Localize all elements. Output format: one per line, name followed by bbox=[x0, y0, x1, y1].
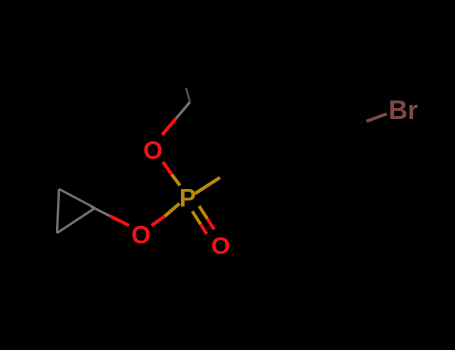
svg-text:O: O bbox=[143, 137, 162, 165]
double bond P=O line 1 red half bbox=[201, 224, 207, 234]
bond P-O2 red half bbox=[152, 216, 165, 225]
svg-text:O: O bbox=[211, 233, 230, 260]
bond Br-C4 bromine half bbox=[367, 114, 387, 121]
cyclopropyl edge lower (dim gray) bbox=[57, 208, 95, 233]
bond O1-CH3 red half bbox=[162, 119, 176, 136]
cyclopropyl edge upper (dim gray) bbox=[59, 189, 95, 208]
bond P-C1 phosphorus half bbox=[195, 178, 220, 194]
benzene ring (fogged, nearly black) bbox=[245, 93, 346, 197]
svg-text:Br: Br bbox=[389, 95, 418, 125]
bond O1-CH3 carbon half (dim gray) bbox=[176, 102, 190, 119]
bond P-C1 carbon half (fogged) bbox=[220, 161, 245, 178]
bond Br-C4 carbon half (fogged) bbox=[346, 121, 367, 128]
double bond P=O line 2 phosphorus half bbox=[199, 206, 207, 219]
bond P-O2 phosphorus half bbox=[165, 204, 180, 217]
double bond P=O line 2 red half bbox=[207, 219, 214, 230]
methyl C H arm (dim gray) bbox=[186, 88, 190, 102]
bond O2-CH red half bbox=[110, 216, 129, 226]
svg-text:O: O bbox=[131, 222, 150, 250]
bond O1-P red half bbox=[163, 162, 172, 175]
double bond P=O line 1 phosphorus half bbox=[192, 211, 200, 224]
svg-text:P: P bbox=[179, 185, 196, 213]
cyclopropyl edge left (dim gray) bbox=[57, 189, 59, 233]
bond O2-CH carbon half (dim gray) bbox=[91, 207, 110, 217]
bond O1-P phosphorus half bbox=[172, 175, 180, 186]
